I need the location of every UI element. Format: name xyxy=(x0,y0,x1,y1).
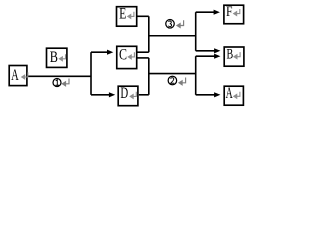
junction3 crossbar xyxy=(149,35,196,37)
pmark in F xyxy=(234,9,240,16)
box A2 xyxy=(224,86,243,105)
box E xyxy=(117,7,137,27)
pmark after label 2 xyxy=(179,78,186,85)
box F xyxy=(224,5,244,24)
pmark in B2 xyxy=(234,52,240,59)
svg-text:D: D xyxy=(120,85,128,102)
svg-text:A: A xyxy=(11,67,19,84)
arrow into A2 xyxy=(196,94,215,96)
pmark after label 1 xyxy=(62,79,69,86)
arrow into C xyxy=(91,51,108,53)
pmark in C xyxy=(128,52,134,59)
svg-text:B: B xyxy=(50,49,58,66)
arrow into D xyxy=(91,94,109,96)
svg-text:F: F xyxy=(226,4,233,20)
box D xyxy=(118,86,138,106)
svg-text:A: A xyxy=(226,85,233,102)
label circled 3 xyxy=(166,20,175,29)
pmark in A1 xyxy=(22,72,28,79)
box B1 xyxy=(47,48,67,67)
box C xyxy=(117,46,137,68)
pmark in B1 xyxy=(59,54,65,61)
arrow into B2 lower xyxy=(196,55,215,57)
arrow into B2 upper xyxy=(196,50,215,52)
wire C lower to junction2 xyxy=(137,57,148,59)
pmark in E xyxy=(128,12,134,19)
junction3 right vertical xyxy=(195,12,197,51)
label circled 2 xyxy=(168,76,177,85)
svg-text:E: E xyxy=(119,6,126,23)
wire E to junction3 xyxy=(137,15,148,17)
label circled 1 xyxy=(53,79,61,87)
svg-text:C: C xyxy=(119,46,127,63)
left bracket vertical xyxy=(90,52,92,95)
junction2 crossbar xyxy=(149,73,196,75)
box A1 xyxy=(9,66,27,86)
pmark in D xyxy=(130,92,136,99)
pmark in A2 xyxy=(234,92,240,99)
junction2 right vertical xyxy=(195,56,197,95)
arrow into F xyxy=(196,11,214,13)
box B2 xyxy=(224,47,244,66)
pmark after label 3 xyxy=(177,20,184,27)
svg-text:B: B xyxy=(227,47,234,63)
junction2 left vertical xyxy=(148,58,150,95)
wire C upper to junction3 xyxy=(137,51,148,53)
wire A1 right to left bracket xyxy=(28,75,91,77)
junction3 left vertical xyxy=(148,16,150,52)
wire D to junction2 xyxy=(139,94,149,96)
